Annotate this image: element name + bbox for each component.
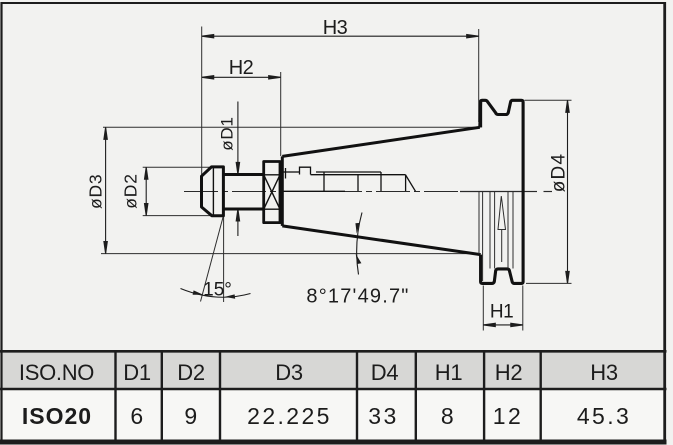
internal thread detail (283, 167, 416, 191)
H2 dimension line (202, 76, 281, 79)
pull stud head (202, 167, 224, 216)
H2 right extension line (280, 72, 282, 156)
centerline solid segment through flange (460, 191, 523, 193)
H1 right extension line (522, 286, 524, 331)
H1 left extension line (482, 286, 484, 331)
flange interior thin lines (below centerline) (479, 192, 513, 281)
table grid (0, 351, 667, 442)
oD3 dimension line (104, 127, 107, 253)
pull stud neck bottom (223, 208, 263, 211)
8 degree arc arrowheads (355, 223, 361, 264)
table header row background (2, 353, 665, 388)
flange front face upper segment (479, 100, 482, 127)
oD2 top extension line (143, 166, 210, 168)
svg-text:12: 12 (493, 403, 523, 429)
svg-text:6: 6 (130, 403, 145, 429)
oD3 top extension line (103, 126, 480, 128)
collar box (264, 162, 280, 223)
15 degree arc arrowheads (193, 290, 236, 298)
oD2 bottom extension line (143, 215, 211, 217)
oD3 bottom extension line (101, 253, 481, 255)
svg-text:H3: H3 (323, 17, 348, 39)
centerline (184, 191, 460, 193)
svg-text:D3: D3 (275, 360, 303, 385)
collar inner horizontals (264, 174, 280, 176)
svg-text:øD4: øD4 (549, 153, 570, 193)
svg-text:H3: H3 (590, 360, 618, 385)
15 degree dimension arc (181, 289, 251, 298)
svg-text:33: 33 (368, 403, 398, 429)
H3/H2 left extension line (201, 27, 203, 176)
flange outline with V-grooves (480, 100, 523, 283)
svg-text:øD1: øD1 (218, 116, 237, 151)
taper top edge (282, 127, 480, 156)
centerline dashes right of flange (525, 191, 538, 193)
svg-text:22.225: 22.225 (247, 403, 332, 429)
table data row background (2, 390, 665, 439)
oD1 dimension line with outside arrows (236, 102, 239, 237)
pull stud head internal edge (212, 168, 214, 216)
svg-text:9: 9 (184, 403, 199, 429)
svg-text:D2: D2 (177, 360, 205, 385)
svg-text:8: 8 (441, 403, 456, 429)
15 degree angle: vertical reference line (223, 216, 225, 302)
collar X cross (264, 175, 280, 209)
15 degree angle: slanted line (201, 216, 224, 302)
svg-text:15°: 15° (203, 280, 232, 301)
H3 right extension line (478, 29, 480, 122)
8 degree taper angle arc (357, 213, 362, 275)
svg-text:ISO20: ISO20 (22, 403, 92, 429)
oD4 dimension line (566, 100, 569, 283)
H1 dimension line (483, 323, 523, 326)
svg-text:D1: D1 (123, 360, 151, 385)
taper bottom edge (282, 226, 480, 255)
svg-text:ISO.NO: ISO.NO (19, 360, 94, 385)
svg-text:øD2: øD2 (120, 173, 140, 208)
svg-text:H1: H1 (490, 302, 513, 323)
oD4 bottom extension line (526, 282, 572, 284)
svg-text:H2: H2 (495, 360, 523, 385)
svg-text:H2: H2 (229, 57, 254, 79)
svg-text:H1: H1 (435, 360, 463, 385)
dimension extension lines (thin) (101, 27, 572, 331)
svg-text:D4: D4 (371, 360, 399, 385)
oD2 dimension line (145, 167, 148, 215)
H3 dimension line (202, 35, 479, 38)
taper small end face (281, 156, 284, 226)
oD4 top extension line (525, 99, 572, 101)
drive slot triangle (498, 196, 506, 230)
table header text (19, 360, 618, 385)
svg-text:8°17'49.7": 8°17'49.7" (306, 286, 409, 308)
svg-text:45.3: 45.3 (577, 403, 631, 429)
table data text (22, 403, 631, 429)
svg-text:øD3: øD3 (86, 174, 106, 209)
pull stud neck top (223, 173, 263, 176)
